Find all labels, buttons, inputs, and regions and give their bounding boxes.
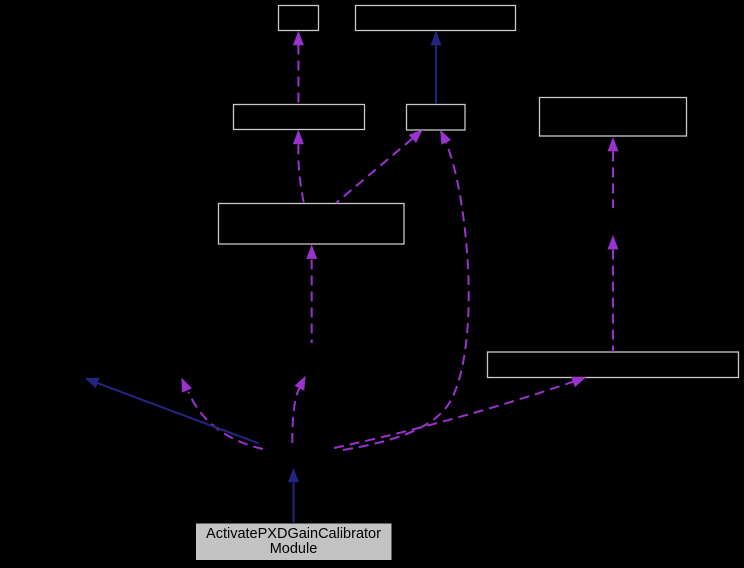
edge E7 dashed hidden node->box5 — [608, 137, 619, 208]
edge E13 solid blue ActivatePXDGainCalibratorModule->centernode — [288, 468, 299, 523]
svg-text:Module: Module — [270, 541, 318, 557]
edge E12 solid blue centernode->hidden far-left node — [85, 378, 260, 444]
node box7 (right long) — [488, 352, 739, 378]
node box4 (row2 middle) — [407, 105, 466, 131]
edge E8 dashed centernode->hidden mid node — [292, 376, 305, 443]
edge E11 dashed centernode->box7 — [334, 377, 586, 448]
edge E1 dashed box3->box1 — [293, 31, 304, 104]
node box6 (row3, two-line) — [219, 204, 405, 245]
edge E9 dashed hidden mid node->box6 — [306, 245, 317, 344]
edge E3 dashed box6->box3 — [293, 130, 304, 203]
node box5 (row2 right, two-line) — [540, 98, 687, 137]
svg-text:ActivatePXDGainCalibrator: ActivatePXDGainCalibrator — [206, 526, 381, 542]
node box3 (row2 left) — [234, 105, 365, 130]
edge E4 dashed box6->box4 diagonal — [336, 130, 423, 204]
edge E10 dashed centernode->hidden left node — [182, 378, 264, 449]
node ActivatePXDGainCalibratorModule (grey, current) — [196, 523, 393, 561]
edge E6 dashed box7->hidden node — [608, 235, 619, 352]
edge E2 solid blue box4->box2 — [431, 31, 442, 104]
edge E5 dashed long curve centernode->box4 — [343, 130, 469, 450]
node box1 (top small) — [279, 6, 319, 31]
node box2 (top wide) — [356, 6, 516, 31]
